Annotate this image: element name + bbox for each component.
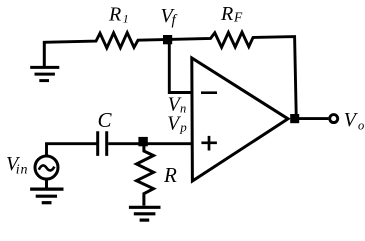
ground (top-left) bbox=[30, 42, 59, 81]
resistor RF bbox=[43, 32, 296, 114]
svg-text:F: F bbox=[233, 10, 243, 25]
svg-text:n: n bbox=[180, 101, 186, 115]
node Vp (junction square) bbox=[138, 137, 147, 146]
wire (node Vf down to inverting input) bbox=[169, 41, 192, 93]
capacitor C bbox=[98, 131, 107, 156]
ground (below source) bbox=[30, 179, 63, 203]
op-amp plus sign bbox=[201, 136, 217, 151]
wire (capacitor to + input through node Vp) bbox=[108, 142, 192, 145]
node output (junction square) bbox=[290, 114, 299, 123]
ground (below R) bbox=[129, 207, 161, 220]
svg-text:R: R bbox=[163, 163, 177, 187]
svg-text:in: in bbox=[16, 162, 28, 177]
svg-text:o: o bbox=[358, 118, 364, 132]
output terminal circle bbox=[330, 115, 338, 123]
source Vin bbox=[35, 156, 58, 179]
resistor R bbox=[137, 146, 154, 206]
op-amp U1 bbox=[192, 58, 288, 181]
svg-text:R: R bbox=[220, 3, 233, 25]
node Vf (junction square) bbox=[163, 35, 172, 44]
svg-text:p: p bbox=[179, 120, 187, 135]
svg-text:V: V bbox=[167, 113, 181, 134]
wire (source to capacitor) bbox=[47, 144, 97, 156]
wire (output node to terminal) bbox=[299, 117, 328, 120]
svg-text:C: C bbox=[98, 108, 113, 132]
svg-text:1: 1 bbox=[123, 11, 129, 25]
op-amp minus sign bbox=[201, 91, 217, 94]
svg-text:R: R bbox=[108, 4, 121, 26]
